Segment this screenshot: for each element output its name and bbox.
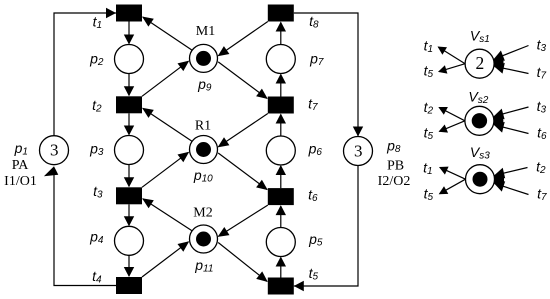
- label PA: [12, 158, 30, 173]
- svg-text:t2: t2: [536, 158, 546, 175]
- label p5: [308, 231, 323, 248]
- svg-text:p4: p4: [89, 228, 104, 245]
- svg-text:t2: t2: [424, 99, 434, 116]
- place p10: [190, 136, 218, 164]
- arc t5 to p5: [276, 257, 286, 278]
- arc t2 to Vs3: [494, 168, 527, 185]
- label t5 at Vs1: [424, 62, 434, 79]
- place p2: [115, 45, 144, 74]
- arc t6 to p6: [276, 165, 286, 188]
- svg-text:p2: p2: [89, 50, 104, 67]
- svg-text:t6: t6: [537, 124, 547, 141]
- svg-text:t3: t3: [93, 183, 103, 200]
- label t5: [309, 265, 319, 282]
- svg-text:p8: p8: [386, 137, 401, 154]
- svg-text:Vs2: Vs2: [468, 88, 488, 105]
- svg-text:t6: t6: [308, 186, 318, 203]
- arc p11 to t3: [142, 198, 192, 230]
- svg-text:t7: t7: [537, 185, 547, 202]
- place p11: [190, 225, 218, 253]
- svg-text:t4: t4: [92, 268, 102, 285]
- label I2/O2: [378, 174, 411, 189]
- token in Vs3: [473, 172, 488, 187]
- label t3 at Vs2: [537, 98, 547, 115]
- svg-text:I2/O2: I2/O2: [378, 174, 411, 189]
- label t4: [92, 268, 102, 285]
- svg-text:t5: t5: [424, 124, 434, 141]
- label t2: [92, 97, 102, 114]
- svg-text:PA: PA: [12, 158, 30, 173]
- arc Vs3 to t1: [439, 167, 466, 180]
- label t7: [308, 95, 318, 112]
- place p7: [266, 45, 295, 74]
- arc t6 to Vs2: [494, 122, 529, 134]
- svg-text:t1: t1: [423, 159, 432, 176]
- svg-text:p3: p3: [89, 140, 104, 157]
- label t2 at Vs3: [536, 158, 546, 175]
- arc p4 to t4: [124, 255, 134, 277]
- transition t4: [116, 277, 142, 294]
- token in Vs2: [472, 113, 487, 128]
- svg-text:Vs1: Vs1: [470, 27, 490, 44]
- transition t1: [116, 5, 142, 22]
- arc t3 to Vs2: [494, 107, 529, 125]
- place p1: [40, 136, 69, 165]
- arc p10 to t2: [142, 108, 192, 141]
- label Vs1: [470, 27, 490, 44]
- svg-text:t8: t8: [309, 13, 319, 30]
- label t6 at Vs2: [537, 124, 547, 141]
- svg-text:t7: t7: [308, 95, 318, 112]
- label p6: [308, 140, 323, 157]
- svg-text:p9: p9: [197, 76, 212, 93]
- svg-text:t3: t3: [537, 98, 547, 115]
- marking 2 in Vs1: [476, 53, 485, 73]
- arc t7 to Vs1: [494, 63, 529, 74]
- label Vs2: [468, 88, 488, 105]
- arc p2 to t2: [124, 74, 134, 97]
- label t3 at Vs1: [537, 36, 547, 53]
- arc t6 to p11: [218, 205, 268, 237]
- arc Vs2 to t5: [439, 121, 465, 133]
- arc p9 to t7: [218, 62, 268, 99]
- svg-text:t5: t5: [309, 265, 319, 282]
- transition t2: [116, 96, 142, 113]
- svg-text:t1: t1: [93, 13, 102, 30]
- svg-text:3: 3: [50, 141, 59, 160]
- arc p6 to t7: [276, 114, 286, 137]
- svg-text:3: 3: [354, 142, 363, 161]
- transition t8: [268, 5, 294, 22]
- arc Vs1 to t5: [438, 64, 465, 74]
- place p6: [266, 136, 295, 165]
- arc t7 to Vs3: [494, 181, 529, 194]
- svg-text:p6: p6: [308, 140, 323, 157]
- marking 3 in p1: [50, 141, 59, 160]
- token in p11: [196, 232, 211, 247]
- arc Vs1 to t1: [438, 47, 466, 64]
- arc t2 to p9: [142, 61, 189, 97]
- transition t6: [268, 188, 294, 205]
- transition t5: [268, 278, 294, 295]
- label t1 at Vs1: [424, 37, 433, 54]
- label M2: [193, 206, 212, 221]
- svg-text:t3: t3: [537, 36, 547, 53]
- svg-text:t5: t5: [424, 62, 434, 79]
- label p9: [197, 76, 212, 93]
- label p3: [89, 140, 104, 157]
- place Vs1: [465, 49, 494, 78]
- place p9: [190, 44, 218, 72]
- place Vs2: [465, 106, 494, 135]
- arc t2 to p3: [124, 113, 134, 135]
- label t2 at Vs2: [424, 99, 434, 116]
- label p2: [89, 50, 104, 67]
- label t5 at Vs3: [424, 185, 434, 202]
- token in p10: [196, 142, 211, 157]
- svg-text:2: 2: [476, 53, 485, 73]
- label p11: [194, 257, 213, 274]
- arc p3 to t3: [124, 165, 134, 188]
- arc p5 to t6: [276, 205, 286, 227]
- place p5: [266, 228, 295, 257]
- svg-text:t7: t7: [537, 64, 547, 81]
- svg-text:R1: R1: [195, 119, 211, 134]
- svg-text:p5: p5: [308, 231, 323, 248]
- label M1: [196, 24, 215, 39]
- label I1/O1: [4, 174, 37, 189]
- place Vs3: [466, 165, 495, 194]
- label p10: [193, 167, 213, 184]
- svg-text:p10: p10: [193, 167, 213, 184]
- label t5 at Vs2: [424, 124, 434, 141]
- transition t7: [268, 97, 294, 114]
- arc p1 to t1: [54, 8, 116, 136]
- arc p8 to t5: [294, 166, 358, 292]
- label p7: [309, 50, 324, 67]
- label Vs3: [470, 144, 490, 161]
- svg-text:M2: M2: [193, 206, 212, 221]
- token in p9: [196, 51, 211, 66]
- label p4: [89, 228, 104, 245]
- place p8: [344, 137, 373, 166]
- svg-text:Vs3: Vs3: [470, 144, 490, 161]
- arc t7 to p10: [218, 114, 268, 148]
- label t6: [308, 186, 318, 203]
- label t3: [93, 183, 103, 200]
- arc t8 to p8: [294, 13, 363, 137]
- label p8: [386, 137, 401, 154]
- arc t3 to p4: [124, 204, 134, 226]
- arc t8 to p9: [218, 22, 268, 57]
- transition t3: [116, 187, 142, 204]
- svg-text:I1/O1: I1/O1: [4, 174, 37, 189]
- arc t1 to p2: [124, 22, 134, 45]
- svg-text:p11: p11: [194, 257, 213, 274]
- arc Vs3 to t5: [439, 179, 466, 194]
- label R1: [195, 119, 211, 134]
- svg-text:t5: t5: [424, 185, 434, 202]
- label PB: [387, 159, 404, 174]
- label p1: [14, 140, 28, 157]
- svg-text:M1: M1: [196, 24, 215, 39]
- svg-text:p7: p7: [309, 50, 324, 67]
- arc Vs2 to t2: [438, 107, 465, 121]
- label t8: [309, 13, 319, 30]
- arc p11 to t5: [218, 243, 268, 283]
- arc t3 to p10: [142, 152, 189, 188]
- place p3: [115, 136, 144, 165]
- label t7 at Vs1: [537, 64, 547, 81]
- place p4: [115, 226, 144, 255]
- arc t7 to p7: [276, 74, 286, 97]
- svg-text:t1: t1: [424, 37, 433, 54]
- svg-text:t2: t2: [92, 97, 102, 114]
- arc p9 to t1: [142, 17, 192, 51]
- label t7 at Vs3: [537, 185, 547, 202]
- arc t3 to Vs1: [494, 46, 529, 69]
- marking 3 in p8: [354, 142, 363, 161]
- arc p7 to t8: [276, 22, 286, 45]
- label t1: [93, 13, 102, 30]
- arc p10 to t6: [218, 153, 268, 190]
- label t1 at Vs3: [423, 159, 432, 176]
- arc t4 to p11: [142, 241, 189, 277]
- arc t4 to p1: [44, 166, 116, 285]
- svg-text:p1: p1: [14, 140, 28, 157]
- svg-text:PB: PB: [387, 159, 404, 174]
